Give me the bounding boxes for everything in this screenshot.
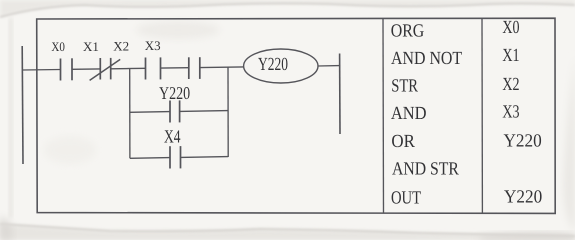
svg-text:X0: X0 [51,39,65,54]
coil Y220 [244,49,318,83]
svg-text:X2: X2 [502,75,519,95]
svg-text:X4: X4 [164,128,181,148]
instruction list column 2 [502,18,542,207]
branch right vertical [227,67,229,157]
left power rail [21,46,24,164]
instruction list column 1 [391,21,462,208]
contact X4 [169,146,171,168]
contact X1 (NC) [99,58,101,80]
svg-text:AND STR: AND STR [392,160,459,180]
svg-text:ORG: ORG [391,21,425,41]
NC slash for X1 [90,59,121,80]
right power rail [339,54,341,135]
contact X3 [188,57,190,79]
svg-text:STR: STR [391,77,418,97]
svg-text:X3: X3 [145,38,161,53]
contact Y220 [169,101,171,123]
svg-text:OR: OR [391,132,415,152]
wire: X3 to coil (passes right branch node) [200,66,244,69]
table divider 1 [382,19,385,213]
svg-text:AND NOT: AND NOT [391,49,462,69]
table divider 2 [481,18,483,213]
wire: X4 branch left [130,157,170,160]
wire: rail to contact X0 [23,69,61,72]
svg-text:X1: X1 [502,46,519,66]
wire: X0 to X1 [72,68,100,70]
svg-text:AND: AND [391,104,427,124]
outer border box [37,18,556,213]
svg-text:Y220: Y220 [504,188,542,208]
svg-text:OUT: OUT [391,188,421,208]
branch left vertical [129,69,131,159]
svg-text:Y220: Y220 [258,55,288,75]
contact X0 [60,59,62,81]
wire: X2 to X3 [161,67,189,69]
svg-text:Y220: Y220 [504,132,542,152]
svg-text:X3: X3 [502,102,519,122]
wire: coil to right rail [318,65,340,67]
contact X2 [145,58,147,80]
wire: X4 branch right [181,156,229,159]
wire: Y220 branch right [180,110,228,113]
wire: X1 to X2 (passes branch node) [111,67,146,70]
svg-text:X2: X2 [113,39,129,54]
svg-text:Y220: Y220 [159,83,190,103]
svg-text:X0: X0 [502,18,519,38]
svg-text:X1: X1 [83,39,99,54]
wire: Y220 branch left [130,111,170,114]
